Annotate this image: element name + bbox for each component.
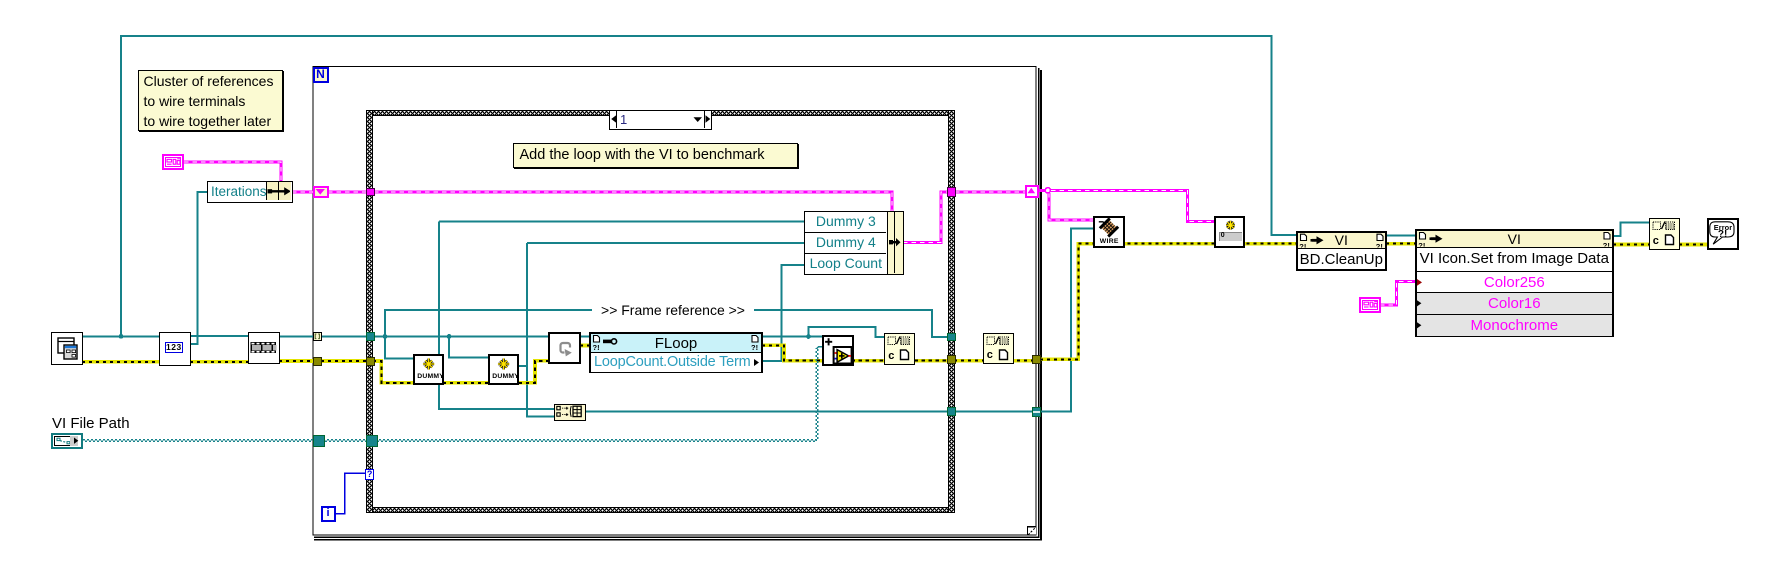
tunnel: teal loop right lower — [1032, 407, 1041, 417]
node: format into string #2 — [983, 333, 1014, 365]
node: WIRE (merge errors?) — [1093, 216, 1125, 248]
terminal: Iterations — [207, 181, 293, 203]
tunnel: pink case right — [947, 187, 957, 197]
tunnel: error olive left loop — [313, 357, 322, 366]
control: VI File Path — [51, 433, 83, 449]
tunnel: path teal case left — [366, 435, 378, 448]
tunnel: teal refnum case left — [366, 332, 375, 341]
bundle icon column — [887, 211, 904, 275]
? conditional tunnel — [365, 469, 374, 481]
wire: teal junction dots — [119, 334, 811, 339]
node: + add frame — [822, 335, 854, 367]
wire: cluster pink nets — [184, 162, 1416, 305]
node: simple error handler bubble — [1707, 218, 1739, 250]
node: FLoop property node — [589, 332, 763, 373]
node: film strip (datalog?) — [248, 332, 280, 364]
node: format into string #3 — [1649, 218, 1680, 250]
node: build cluster array — [554, 404, 586, 421]
wire: error (yellow/black) — [82, 244, 1708, 383]
constant: pink cluster (right, image data) — [1359, 297, 1381, 313]
node: wait * with 0 bar — [1214, 216, 1246, 248]
tunnel: error olive left case — [366, 357, 375, 366]
comment: add the loop — [513, 143, 799, 168]
comment: cluster of references — [138, 70, 283, 131]
wire: VI file path zigzag — [83, 347, 823, 442]
tunnel: error olive right case — [947, 355, 956, 364]
node: DUMMY 1 — [413, 354, 445, 386]
node: bundle by name (Dummy3/Dummy4/Loop Count) — [804, 211, 888, 275]
node: invoke BD.CleanUp — [1296, 231, 1387, 271]
pink loop-output circle — [1045, 188, 1050, 193]
node: 123 (to number) — [159, 332, 191, 366]
tunnel: teal case right lower — [947, 407, 956, 416]
tunnel: teal case right frame-ref — [947, 333, 956, 342]
label: VI File Path — [52, 415, 130, 432]
tunnel: pink triangle loop right — [1025, 185, 1039, 198]
node: DUMMY 2 — [488, 354, 520, 386]
label: frame reference — [592, 302, 754, 318]
N count terminal — [313, 67, 329, 83]
tunnel: path teal loop left — [313, 435, 325, 448]
node: Q loop glyph — [548, 332, 581, 364]
node: invoke VI Icon.Set from Image Data — [1415, 229, 1614, 337]
tunnel: pink triangle loop left — [313, 186, 329, 198]
constant: pink cluster (top) — [162, 154, 184, 170]
case selector "1" — [609, 110, 712, 130]
wire: iteration blue — [336, 473, 367, 514]
node: Open VI Reference — [51, 332, 83, 365]
tunnel: [] indexing — [313, 332, 322, 341]
wire: refnum teal net — [83, 36, 1650, 416]
i iteration terminal — [321, 506, 336, 522]
for loop corner notch — [1028, 527, 1037, 535]
case structure hatched borders — [366, 110, 955, 117]
tunnel: error olive right loop — [1032, 355, 1041, 364]
tunnel: pink case left — [366, 188, 375, 197]
node: format into string #1 — [884, 333, 915, 365]
